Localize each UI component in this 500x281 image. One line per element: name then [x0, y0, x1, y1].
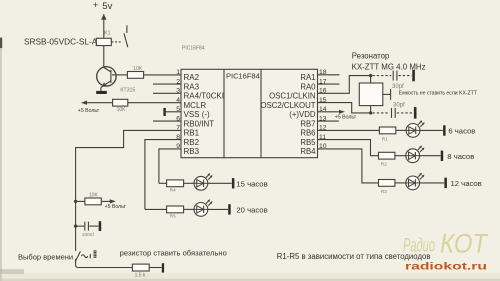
- svg-text:10K: 10K: [133, 66, 143, 72]
- resonator ZQ1 body: [359, 83, 383, 106]
- wire dashed to C 30pf top: [373, 75, 392, 77]
- ground bar top 30pf: [412, 70, 415, 82]
- svg-text:10K: 10K: [89, 193, 99, 199]
- resistor 1.5k: [132, 264, 149, 278]
- svg-text:+5 Вольт: +5 Вольт: [105, 204, 127, 210]
- wire R1 to LED1: [396, 129, 406, 131]
- ground bar 1.5k: [162, 263, 164, 272]
- wire resonator middle pin: [383, 93, 390, 95]
- wire pin9 RB3 down: [159, 149, 181, 183]
- svg-text:15 часов: 15 часов: [236, 179, 267, 188]
- wire dashed cap to ground top: [399, 75, 412, 77]
- svg-text:RB0/INT: RB0/INT: [184, 119, 215, 128]
- svg-text:RA2: RA2: [184, 73, 200, 82]
- resistor R4: [167, 180, 184, 193]
- node +5v supply arrow: [101, 14, 106, 39]
- wire pin2 RA3 stub: [153, 83, 181, 85]
- wire 1.5k to ground: [149, 267, 161, 269]
- ground bar VSS: [163, 108, 165, 116]
- wire R5 to LED5: [184, 208, 194, 210]
- wire switch to 1.5k: [76, 259, 133, 268]
- wire RB2 row to R5: [145, 208, 167, 210]
- photo edge artifact left: [0, 38, 2, 49]
- svg-text:10K: 10K: [117, 107, 127, 113]
- svg-text:+: +: [93, 0, 98, 10]
- svg-text:OSC2/CLKOUT: OSC2/CLKOUT: [260, 101, 315, 110]
- LED VD1: [406, 120, 425, 137]
- terminal bar 20h: [228, 204, 231, 214]
- wire 10K to +5V arrow: [101, 199, 116, 203]
- svg-text:VSS (-): VSS (-): [184, 110, 211, 119]
- svg-text:radiokot.ru: radiokot.ru: [405, 260, 487, 272]
- svg-text:MCLR: MCLR: [184, 101, 207, 110]
- capacitor C 30pf bottom: [392, 103, 406, 118]
- wire dashed to C 30pf bottom: [373, 112, 390, 114]
- svg-text:+5 Вольт: +5 Вольт: [78, 108, 100, 114]
- svg-text:R2: R2: [381, 162, 387, 167]
- wire pin6 RB0 stub: [153, 120, 181, 122]
- svg-text:12 часов: 12 часов: [451, 179, 482, 188]
- svg-text:SRSB-05VDC-SL-A: SRSB-05VDC-SL-A: [24, 36, 98, 46]
- svg-text:R3: R3: [381, 189, 387, 194]
- resistor 10K (switch pullup): [85, 193, 101, 205]
- svg-text:30pf: 30pf: [392, 84, 404, 90]
- wire resonator bottom pin: [370, 106, 372, 113]
- resistor R2: [379, 152, 395, 166]
- wire R2 to LED2: [395, 155, 406, 157]
- relay coil K1: [96, 31, 111, 46]
- watermark РадиоКОТ: [403, 229, 489, 259]
- wire capacitor to ground: [89, 225, 98, 227]
- svg-text:резистор ставить обязательно: резистор ставить обязательно: [120, 248, 227, 257]
- ground bar bottom 30pf: [414, 107, 417, 119]
- svg-text:R1: R1: [382, 136, 388, 141]
- wire R4 to LED4: [184, 182, 194, 184]
- switch S1 marks: [81, 251, 96, 258]
- svg-text:OSC1/CLKIN: OSC1/CLKIN: [269, 92, 315, 101]
- LED VD2: [406, 146, 425, 163]
- svg-text:5v: 5v: [102, 1, 112, 12]
- svg-text:RB1: RB1: [184, 129, 200, 138]
- wire pin5 VSS: [166, 111, 182, 113]
- wire pin8 RB2 down: [145, 140, 181, 210]
- svg-text:КОТ: КОТ: [440, 229, 489, 259]
- svg-text:Радио: Радио: [403, 236, 435, 257]
- svg-text:Емкость не ставить если KX-ZTT: Емкость не ставить если KX-ZTT: [399, 90, 477, 96]
- wire pin12 RB6 to R1: [318, 129, 380, 131]
- wire LED1 to bar: [420, 129, 443, 131]
- svg-text:R5: R5: [170, 214, 176, 219]
- terminal bar 8h: [441, 151, 444, 161]
- svg-text:RA0: RA0: [300, 82, 316, 91]
- svg-text:+5 Вольт: +5 Вольт: [335, 114, 357, 120]
- wire R3 to LED3: [395, 182, 406, 184]
- pin names left column: [184, 73, 224, 156]
- wire resistor to pin1 RA2: [144, 74, 181, 76]
- pin numbers left 1-9: [176, 69, 180, 150]
- wire pin3 RA4 stub: [153, 92, 181, 94]
- svg-text:(+)VDD: (+)VDD: [289, 110, 316, 119]
- node junction 100nf: [74, 224, 77, 227]
- svg-text:КТ315: КТ315: [120, 88, 135, 94]
- resistor R3: [379, 180, 395, 194]
- node +5V MCLR pullup arrow: [81, 101, 113, 105]
- svg-text:Выбор времени: Выбор времени: [18, 252, 73, 261]
- svg-text:RB3: RB3: [184, 147, 200, 156]
- node junction OSC2: [369, 111, 372, 114]
- svg-text:RA3: RA3: [184, 82, 200, 91]
- terminal bar 15h: [232, 178, 235, 188]
- terminal bar 6h: [443, 125, 446, 135]
- resistor 10K (base): [127, 66, 143, 78]
- wire relay to contact (dashed link): [111, 41, 120, 43]
- wire RB3 row to R4: [159, 182, 167, 184]
- svg-text:6 часов: 6 часов: [448, 127, 475, 136]
- terminal bar 12h: [444, 178, 447, 188]
- node junction pullup: [74, 200, 77, 203]
- wire pin14 VDD arrow: [318, 110, 346, 114]
- wire resistor to pin4 MCLR: [128, 102, 181, 104]
- switch S1 blade: [75, 251, 80, 261]
- capacitor C 100nf: [82, 222, 95, 239]
- svg-text:30pf: 30pf: [393, 103, 405, 109]
- svg-text:100nf: 100nf: [82, 232, 95, 238]
- svg-text:4: 4: [176, 97, 180, 104]
- wire LED5 to bar: [208, 208, 228, 210]
- wire pin18 RA1 stub: [318, 74, 340, 76]
- svg-text:KX-ZTT MG 4.0 MHz: KX-ZTT MG 4.0 MHz: [352, 62, 426, 71]
- transistor Q1 KT315: [97, 67, 116, 91]
- ground stub resonator: [390, 89, 392, 100]
- svg-text:RB4: RB4: [300, 147, 316, 156]
- svg-text:K1: K1: [104, 31, 110, 37]
- wire LED3 to bar: [420, 182, 445, 184]
- wire pin7 RB1 to switch rail: [76, 130, 181, 251]
- svg-text:RA1: RA1: [300, 73, 315, 82]
- wire pin16 OSC1 to resonator: [318, 76, 371, 94]
- wire LED2 to bar: [420, 155, 441, 157]
- svg-text:R4: R4: [170, 188, 176, 193]
- svg-text:RB2: RB2: [184, 138, 200, 147]
- LED VD3: [406, 173, 425, 190]
- svg-text:RB7: RB7: [300, 119, 315, 128]
- wire rail to 10K pullup: [76, 200, 85, 202]
- LED VD4: [194, 173, 213, 190]
- wire pin15 OSC2 to resonator bottom: [318, 103, 371, 113]
- svg-text:8 часов: 8 часов: [447, 152, 474, 161]
- svg-text:PIC16F84: PIC16F84: [226, 71, 260, 80]
- LED VD5: [194, 199, 213, 216]
- wire pin10 RB4 to R3: [318, 149, 379, 183]
- wire pin11 RB5 to R2: [318, 140, 379, 156]
- svg-text:RB5: RB5: [300, 138, 316, 147]
- node junction OSC1: [369, 74, 372, 77]
- IC U1 PIC16F84 body: [181, 69, 318, 157]
- wire relay to transistor collector: [103, 46, 105, 68]
- svg-text:Резонатор: Резонатор: [352, 51, 390, 60]
- wire rail to capacitor: [76, 225, 85, 227]
- wire resonator top pin: [370, 76, 372, 83]
- wire base to resistor: [112, 74, 127, 76]
- resistor 10K (MCLR pullup): [113, 99, 128, 113]
- relay contact: [124, 25, 128, 47]
- svg-text:1.5 k: 1.5 k: [135, 273, 146, 279]
- capacitor C 30pf top: [392, 71, 404, 91]
- pin names right column: [260, 73, 316, 156]
- svg-text:PIC16F84: PIC16F84: [182, 46, 205, 52]
- ground under emitter: [96, 91, 107, 94]
- pin numbers right 18-10: [319, 69, 327, 150]
- wire pin13 RB7 stub: [318, 120, 339, 122]
- wire LED4 to bar: [208, 182, 232, 184]
- svg-text:20 часов: 20 часов: [236, 206, 267, 215]
- svg-text:RA4/T0CKI: RA4/T0CKI: [184, 92, 224, 101]
- resistor R1: [379, 127, 395, 141]
- svg-text:1: 1: [176, 69, 180, 76]
- label + 5v: [93, 0, 113, 12]
- wire pin17 RA0 stub: [318, 83, 340, 85]
- svg-text:RB6: RB6: [300, 129, 315, 138]
- resistor R5: [167, 206, 184, 219]
- wire dashed cap to ground bottom: [397, 112, 414, 114]
- ground bar 100nf: [99, 221, 102, 231]
